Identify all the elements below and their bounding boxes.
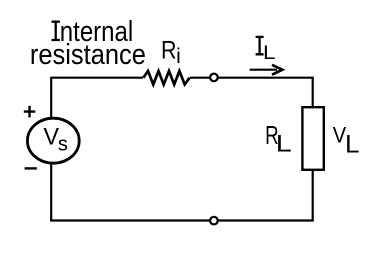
svg-text:L: L — [263, 42, 276, 64]
label: Internal resistance — [52, 22, 60, 40]
svg-text:i: i — [176, 45, 181, 68]
load resistor RL box — [302, 107, 323, 170]
svg-text:R: R — [161, 37, 177, 65]
svg-text:L: L — [345, 132, 360, 159]
resistor R1 zigzag (internal resistance Ri) — [143, 71, 189, 85]
wire from resistor to top-right corner down to load box — [190, 78, 313, 107]
node A (top terminal, open circle) — [210, 74, 218, 82]
current arrow for IL — [250, 69, 277, 71]
svg-text:resistance: resistance — [30, 39, 146, 71]
voltage source VS circle — [27, 118, 79, 163]
wire top-left from corner to resistor — [51, 78, 143, 117]
svg-text:L: L — [276, 131, 292, 158]
svg-text:s: s — [58, 133, 68, 155]
plus sign — [24, 106, 36, 118]
node B (bottom terminal, open circle) — [210, 217, 218, 225]
minus sign — [25, 167, 37, 169]
label IL (serif I drawn with strokes) — [256, 37, 264, 54]
wire from load box bottom around bottom to left vertical — [51, 164, 313, 221]
